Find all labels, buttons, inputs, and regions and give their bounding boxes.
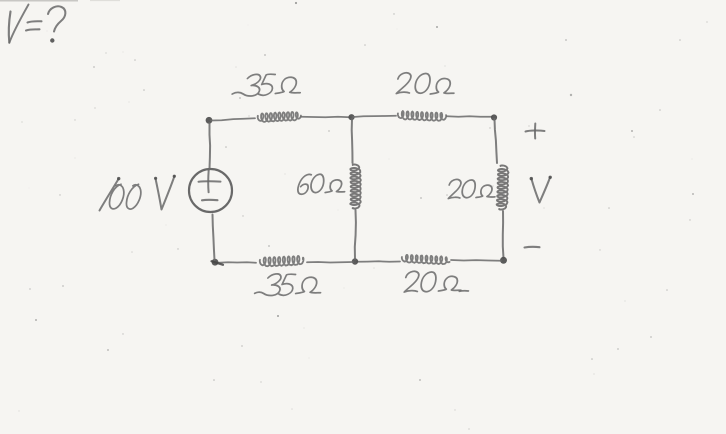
resistor R6 60Ω (middle branch, vertical coil) — [350, 165, 361, 209]
wire: right side upper (node C down to R3) — [495, 119, 498, 163]
node A (top-left corner junction) — [206, 117, 213, 124]
value label "20Ω" for R2 (above top-right resistor) — [395, 73, 457, 94]
annotation "−" polarity mark (bottom of output) — [525, 246, 540, 249]
resistor R5 35Ω (bottom, horizontal scribble coil) — [260, 256, 304, 266]
annotation "+" polarity mark (top of output) — [526, 124, 545, 139]
annotation "V" output voltage label (right side) — [530, 176, 552, 203]
wire: node B to R2 — [353, 116, 396, 117]
wire: top-left corner to R1 — [211, 118, 255, 120]
annotation "V=?" question label — [9, 5, 66, 43]
wire: left side lower (VS1 bottom to node D) — [213, 215, 215, 261]
value label "35Ω" for R5 (below bottom-left resistor) — [254, 274, 324, 296]
wire: R5 to bottom-left corner node D — [218, 261, 256, 264]
wire: middle branch lower (R6 down to node E) — [355, 210, 356, 259]
wire: right side lower (R3 down to node F) — [502, 211, 505, 258]
wire: bottom-right corner to R4 — [451, 259, 501, 262]
wire: node E to R5 — [307, 261, 353, 264]
wire: R1 to node B — [301, 116, 350, 119]
wire: R2 to top-right corner node C — [447, 115, 492, 118]
value label "60Ω" for R6 (left of middle resistor) — [297, 174, 348, 194]
node F (bottom-right corner) — [500, 257, 507, 264]
resistor R3 20Ω (right branch, vertical coil) — [497, 166, 509, 210]
value label "20Ω" for R3 (left of right-branch resistor) — [447, 179, 498, 198]
node E (bottom middle junction) — [352, 258, 358, 264]
wire: R4 to node E — [357, 260, 400, 263]
node D (bottom-left corner with small tick) — [212, 259, 224, 266]
resistor R1 35Ω (top, horizontal scribble coil) — [258, 112, 301, 122]
node B (top middle junction) — [348, 114, 354, 120]
value label "20Ω" for R4 (below bottom-right resistor) — [403, 271, 472, 292]
value label "100 V" for VS1 (left of voltage source) — [100, 175, 176, 211]
resistor R4 20Ω (bottom, horizontal scribble coil) — [402, 255, 450, 264]
wire: middle branch upper (node B down to R6) — [351, 119, 354, 163]
value label "35Ω" for R1 (above top-left resistor) — [232, 74, 304, 96]
voltage source VS1 (100 V, circle with + and − marks) — [189, 169, 232, 212]
wire: left side upper (node A down to VS1 top) — [209, 123, 212, 169]
resistor R2 20Ω (top, horizontal scribble coil) — [398, 111, 446, 121]
node C (top-right corner) — [491, 114, 497, 120]
